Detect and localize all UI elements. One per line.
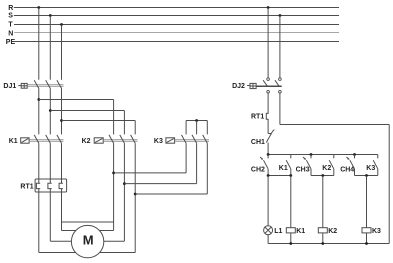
wire DJ2 pole2 to right rail [280,93,389,125]
svg-text:CH1: CH1 [251,139,265,146]
svg-text:K2: K2 [322,165,331,172]
rail S [8,13,339,20]
pushbutton CH2 (NO) [251,155,268,176]
contactor K3 pole 2 contact [192,135,197,143]
motor M1 [71,225,103,257]
contact K3 (aux NO) [366,155,378,176]
svg-text:RT1: RT1 [251,113,264,120]
thermal overload RT1 control contact [251,113,269,120]
breaker DJ2 pole 1 contact [263,78,269,93]
svg-text:S: S [8,13,13,20]
breaker DJ1 mechanical linkage [27,85,63,87]
svg-text:K1: K1 [296,228,305,235]
svg-text:N: N [8,30,13,37]
rail T [8,22,339,29]
node K2 pole3 / K3 pole3 junction [134,143,208,252]
coil K2 [318,228,337,244]
contactor K2 pole 3 contact [131,135,136,143]
node tap R->DJ1 [37,6,40,80]
lamp L1 [264,226,283,235]
contactor K3 linkage [175,140,209,142]
breaker DJ1 pole 2 contact [46,80,51,88]
svg-text:CH3: CH3 [296,167,310,174]
rail R [8,5,339,12]
contactor K2 pole 2 contact [120,135,125,143]
contactor K2 label and coil-box [82,138,104,145]
breaker DJ2 pole 2 contact [275,78,281,93]
wire DJ1 pole1 to K1 pole1 [38,88,40,134]
svg-text:RT1: RT1 [20,184,33,191]
node tap S->DJ1 [49,14,52,80]
wire RT1 pole2 to motor V1 [50,189,71,242]
wire drop to coil K3 [366,176,368,228]
thermal overload RT1 heater 2 [48,143,52,188]
node bar CH3/K2 [311,174,334,177]
svg-text:CH4: CH4 [340,167,354,174]
node K2 pole1 / K3 pole1 junction [112,143,186,230]
svg-text:K1: K1 [279,165,288,172]
contactor K1 linkage [29,140,63,142]
breaker DJ2 label and operator box [232,83,256,90]
contact K1 (aux NO) [279,155,291,176]
node junction phase R to K2 [37,98,113,134]
contactor K1 pole 2 contact [46,135,51,143]
wire K2 pole1 to motor W2 [99,230,113,232]
wire right rail [388,125,390,244]
wire DJ1 pole3 to K1 pole3 [61,88,63,134]
svg-text:K2: K2 [82,138,91,145]
wire lamp to bottom bus [267,235,269,244]
pushbutton CH1 (NC) [251,130,274,147]
wire DJ2 pole1 to RT1 [267,93,269,113]
contactor K1 label and coil-box [9,138,29,145]
svg-text:M: M [83,232,94,247]
wire RT1 pole1 to motor U1 [39,189,76,253]
node junction phase T to K2 [60,119,135,134]
svg-text:DJ1: DJ1 [3,83,16,90]
svg-text:K2: K2 [328,228,337,235]
thermal overload RT1 heater 3 [59,143,63,188]
rail N [8,30,339,37]
wire drop to lamp L1 [267,176,269,226]
svg-text:K1: K1 [9,138,18,145]
svg-text:K3: K3 [372,228,381,235]
svg-text:K3: K3 [366,165,375,172]
wire link W1 to K2 pole1 branch [62,221,114,223]
contactor K3 pole 3 contact [203,135,208,143]
svg-text:DJ2: DJ2 [232,83,245,90]
contactor K1 pole 1 contact [34,135,39,143]
coil K3 [362,228,381,244]
wire K2 pole3 to motor V2 [100,252,135,254]
node junction phase S to K2 [49,109,125,134]
coil K1 [286,228,305,244]
thermal overload RT1 label and box [20,179,66,192]
node bar CH2/K1 [267,174,292,177]
node tap S->DJ2 [279,14,282,78]
node tap R->DJ2 [267,6,270,78]
rail PE [6,39,339,46]
wire drop to coil K1 [290,176,292,228]
contact K2 (aux NO) [322,155,334,176]
node bar CH4/K3 [355,174,378,177]
breaker DJ1 pole 1 contact [34,80,39,88]
node star point bracket of K3 [186,119,207,134]
contactor K3 label and coil-box [154,138,175,145]
wire bottom control bus [268,242,389,245]
svg-text:L1: L1 [274,228,282,235]
wire control bus [267,153,378,156]
pushbutton CH4 (NO) [340,155,354,176]
node tap T->DJ1 [60,23,63,80]
svg-text:T: T [8,22,13,29]
breaker DJ1 pole 3 contact [57,80,62,88]
node K2 pole2 / K3 pole2 junction [123,143,197,241]
contactor K2 pole 1 contact [109,135,114,143]
svg-text:K3: K3 [154,138,163,145]
wire DJ1 pole2 to K1 pole2 [49,88,51,134]
wire RT1 to CH1 [267,119,269,133]
svg-text:CH2: CH2 [251,167,265,174]
wire RT1 pole3 to motor W1 [62,189,77,231]
thermal overload RT1 heater 1 [36,143,40,188]
svg-text:R: R [8,5,13,12]
wire K2 pole2 to motor U2 [104,240,125,242]
pushbutton CH3 (NO) [296,155,311,176]
contactor K3 pole 1 contact [182,135,187,143]
contactor K2 linkage [103,140,137,142]
breaker DJ1 label and operator box [3,83,27,90]
wire CH1 to control bus [267,143,269,155]
breaker DJ2 linkage [256,85,282,87]
svg-text:PE: PE [6,39,16,46]
contactor K1 pole 3 contact [57,135,62,143]
wire drop to coil K2 [322,176,324,229]
